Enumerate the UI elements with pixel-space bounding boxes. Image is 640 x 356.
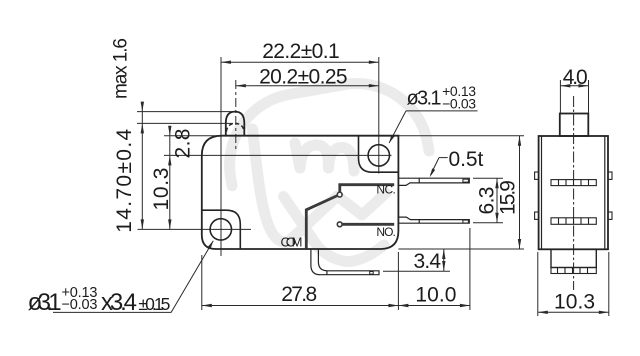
svg-text:22.2±0.1: 22.2±0.1	[262, 40, 340, 63]
svg-text:10.3: 10.3	[554, 290, 595, 313]
svg-text:NC.: NC.	[376, 183, 396, 197]
svg-text:0.5t: 0.5t	[449, 148, 484, 171]
svg-text:COM: COM	[281, 234, 303, 249]
svg-text:10.0: 10.0	[415, 283, 456, 306]
svg-text:4.0: 4.0	[563, 66, 588, 89]
svg-text:−0.03: −0.03	[442, 96, 476, 112]
svg-text:27.8: 27.8	[281, 283, 317, 306]
svg-text:2.8: 2.8	[172, 129, 195, 159]
svg-text:14.70±0.4: 14.70±0.4	[113, 128, 136, 232]
svg-text:−0.03: −0.03	[62, 297, 98, 313]
svg-text:15.9: 15.9	[497, 180, 520, 215]
svg-text:20.2±0.25: 20.2±0.25	[259, 66, 348, 89]
svg-text:max 1.6: max 1.6	[111, 38, 132, 99]
svg-text:10.3: 10.3	[150, 168, 173, 211]
svg-text:ø3.1: ø3.1	[28, 289, 62, 316]
svg-text:3.4: 3.4	[414, 250, 442, 273]
svg-text:±0.15: ±0.15	[138, 294, 170, 314]
svg-text:6.3: 6.3	[476, 187, 499, 215]
svg-text:NO.: NO.	[376, 225, 396, 239]
svg-text:x3.4: x3.4	[101, 289, 137, 316]
svg-text:ø3.1: ø3.1	[407, 88, 442, 110]
